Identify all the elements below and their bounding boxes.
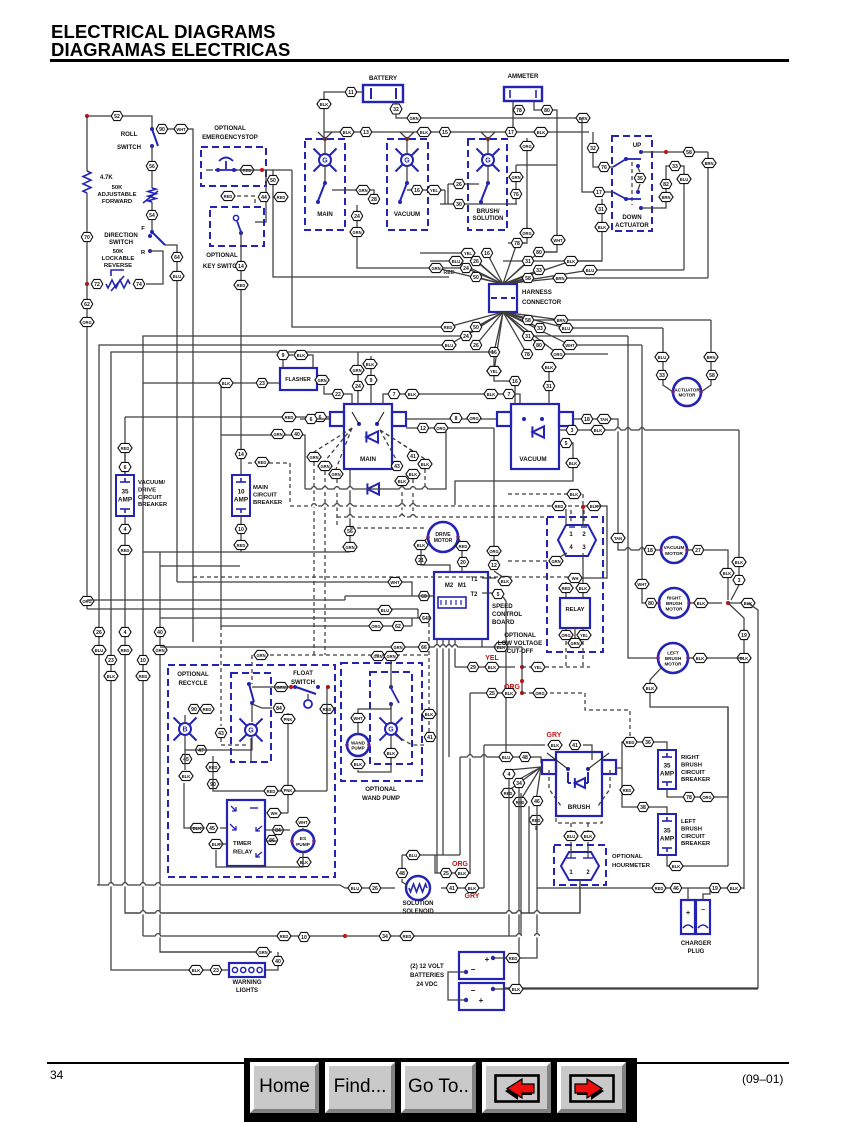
svg-text:GRN: GRN [352,368,361,373]
board bottom wires [436,639,438,873]
svg-text:BLK: BLK [408,392,416,397]
wire tag BLU [406,850,420,859]
bus y936 [143,793,521,936]
Home button [250,1062,319,1113]
wire tag BLU [92,645,106,654]
wire tag RED [255,457,269,466]
wire tag GRN [271,429,285,438]
wire 29 row [455,666,515,668]
wire tag BLU [170,271,184,280]
wire tag ORG [487,546,501,555]
wire [487,139,489,153]
wire tag WH [267,808,281,817]
wire tag BLK [484,389,498,398]
wire tag BLK [485,662,499,671]
svg-text:BRN: BRN [556,276,565,281]
wire tag 40 [291,429,303,438]
svg-text:5: 5 [565,441,568,447]
dashed relay drops [565,641,567,667]
svg-text:OPTIONAL: OPTIONAL [206,252,238,259]
wire 25 row solenoid [435,855,470,873]
wire tag BLK [737,653,751,662]
wire tag RED [234,280,248,289]
wire brush tab down [622,768,667,814]
svg-text:G: G [404,158,410,165]
wire battery right [396,102,582,118]
wire tag BLK [190,823,204,832]
charger plug [681,900,695,934]
board pin stubs [421,553,450,572]
svg-text:BLK: BLK [551,743,559,748]
wire tag 80 [541,105,553,114]
svg-text:GRN: GRN [570,641,579,646]
wire tag 23 [256,378,268,387]
switch MAIN [318,183,325,201]
svg-text:3: 3 [582,545,586,551]
node junction [85,282,89,286]
wire tag BLU [348,883,362,892]
svg-text:BLK: BLK [488,665,496,670]
svg-text:RED: RED [459,544,468,549]
wire float right down [326,687,328,791]
meter G VACUUM [396,149,419,172]
wire tag 29 [467,662,479,671]
bus y383 flasher [143,382,280,384]
wire tag BLU [655,352,669,361]
svg-text:BLK: BLK [598,225,606,230]
wire tag BLU [442,340,456,349]
wire tag BLK [567,489,581,498]
node junction [664,150,668,154]
svg-text:9: 9 [370,378,373,384]
wire tag BLU [583,265,597,274]
up-down actuator box [612,136,652,231]
wire ammeter left [512,101,514,132]
key switch [237,221,241,232]
svg-text:35: 35 [637,176,643,182]
wire harness fan low [503,312,566,328]
wire tag GRN [256,947,270,956]
wire tag 62 [392,621,404,630]
svg-text:BLU: BLU [452,259,460,264]
svg-text:58: 58 [686,150,692,156]
pin4 lead [560,553,567,557]
wire tag 16 [411,185,423,194]
svg-text:PNK: PNK [284,788,293,793]
svg-text:VACUUM: VACUUM [664,545,685,551]
svg-text:CIRCUIT: CIRCUIT [681,834,705,840]
wire tag 33 [533,265,545,274]
svg-text:RED: RED [444,270,455,276]
wire tag 56 [344,526,356,535]
svg-text:24 VDC: 24 VDC [416,981,438,988]
svg-text:BLK: BLK [297,353,305,358]
wire harness fan low [503,312,539,345]
contactor BRUSH [556,752,602,816]
wire row y430 [559,429,739,431]
page number [50,1068,63,1082]
svg-text:50K: 50K [112,185,124,191]
motor wand pump [347,734,369,756]
wire tag 24 [460,331,472,340]
relay pins [231,806,236,811]
svg-text:RED: RED [237,543,246,548]
wire tag 16 [481,248,493,257]
svg-text:BLK: BLK [672,864,680,869]
svg-text:MAIN: MAIN [317,211,333,218]
svg-text:50: 50 [473,325,479,331]
svg-text:4: 4 [124,630,127,636]
svg-text:4: 4 [508,772,511,778]
dashed 43 below [221,738,246,745]
wires wand [358,705,391,713]
wire tag 3 [733,575,745,584]
wires fan verticals [508,779,510,936]
brush left tab fan [509,767,541,770]
svg-text:RED: RED [516,800,525,805]
wire to bottom right rail [504,603,758,988]
svg-text:56: 56 [149,164,155,170]
wire ORG rail [508,138,527,243]
wire tag 26 [470,340,482,349]
wire tag 6 [314,412,327,421]
svg-text:−: − [471,965,476,974]
svg-text:ORG: ORG [522,144,531,149]
wire tag 4 [119,627,131,636]
wires cluster [345,595,435,597]
wire tag 47 [195,745,207,754]
Find button [325,1062,395,1113]
svg-text:LOCKABLE: LOCKABLE [102,256,135,262]
svg-text:WARNING: WARNING [233,980,262,986]
circuit breaker CB1 35A [116,475,134,516]
dashed bus y528 [350,527,424,529]
wire tag 25 [440,868,452,877]
wire tag 10 [137,655,149,664]
svg-text:MOTOR: MOTOR [665,551,683,557]
svg-text:72: 72 [94,282,100,288]
dashed ORG right [522,692,585,694]
wire tag ORG [434,423,448,432]
svg-text:BLK: BLK [487,392,495,397]
svg-text:SPEED: SPEED [492,603,513,610]
svg-text:26: 26 [96,630,102,636]
wire battery series link [448,972,466,1000]
wire tag 58 [706,370,718,379]
optional recycle box [168,665,335,877]
svg-text:GRN: GRN [273,432,282,437]
motor right brush [659,588,689,618]
svg-text:BLK: BLK [366,362,374,367]
svg-text:BLK: BLK [570,492,578,497]
svg-text:BLK: BLK [584,834,592,839]
svg-text:34: 34 [382,934,388,940]
wire tag 70 [81,232,93,241]
svg-text:38: 38 [640,805,646,811]
wire tag BLK [465,883,479,892]
wire tag BLK [581,831,595,840]
bus y566 [160,565,240,567]
wire tag BLU [564,831,578,840]
wire tag 24 [352,381,364,390]
wire wand GRN drop [390,661,392,687]
wire relay bottom [565,628,567,634]
wire harness fan low [503,312,558,354]
svg-text:19: 19 [712,886,718,892]
svg-text:33: 33 [672,164,678,170]
wire harness fan [487,253,503,284]
wire tag YEL [577,630,591,639]
wire tag ORG [559,630,573,639]
wire tag RED [552,501,566,510]
wire tag 3 [566,425,578,434]
svg-text:OPTIONAL: OPTIONAL [177,671,209,678]
svg-text:48: 48 [522,755,528,761]
previous page button [482,1062,551,1113]
wire tag BLK [566,458,580,467]
svg-text:RELAY: RELAY [233,850,252,856]
wire V to top row [481,132,495,139]
dashed brush skirt [549,770,561,806]
wire tag 31 [595,204,607,213]
wire tag 9 [365,375,377,384]
wire harness fan low [503,312,528,320]
wire tag BLK [395,476,409,485]
bus y430 right end down [731,430,739,600]
wire tag RED [441,322,455,331]
svg-text:BLK: BLK [646,686,654,691]
flasher [280,368,317,390]
wire tag BLK [576,583,590,592]
wire harness fan [503,278,560,284]
wire tag 4 [503,769,515,778]
rail x642 WHT to right brush motor [642,345,659,603]
svg-text:46: 46 [534,799,540,805]
svg-text:CONTROL: CONTROL [492,611,522,618]
svg-text:BRN: BRN [707,355,716,360]
svg-text:VACUUM: VACUUM [519,456,546,463]
wire RED branch [292,170,448,327]
wire tag RED [264,786,278,795]
svg-text:66: 66 [421,645,427,651]
bus y552 [143,551,350,553]
svg-text:80: 80 [536,250,542,256]
wire [421,537,428,553]
svg-text:BLU: BLU [409,853,417,858]
svg-text:23: 23 [259,381,265,387]
svg-text:EMERGENCYSTOP: EMERGENCYSTOP [202,134,258,141]
wire tag 46 [531,796,543,805]
wire tag ORG [520,228,534,237]
recycle inner box [231,673,271,762]
wire tag RED [277,931,291,940]
svg-text:ACTUATOR: ACTUATOR [674,387,700,392]
meter G BRUSH [477,149,500,172]
wire 76 to switch [593,132,613,167]
svg-text:78: 78 [524,352,530,358]
wire 84 link [252,704,272,708]
svg-text:RED: RED [280,934,289,939]
wire harness fan low [476,312,503,345]
wire charger leads [687,888,689,900]
wire tag 7 [503,389,515,398]
svg-text:50K: 50K [113,249,125,255]
svg-text:AMP: AMP [660,771,675,778]
wire tag 40 [272,956,284,965]
svg-text:BLU: BLU [562,326,570,331]
svg-text:RED: RED [121,648,130,653]
svg-text:26: 26 [372,886,378,892]
wire [240,233,242,475]
svg-text:RED: RED [277,195,286,200]
wire tag GRN [568,638,582,647]
svg-text:GRY: GRY [547,732,562,739]
wire roll switch to WHT rail [158,129,193,642]
svg-text:TAN: TAN [600,417,608,422]
svg-text:BLK: BLK [501,579,509,584]
svg-text:SOLUTION: SOLUTION [473,216,504,222]
wire BRN rail to actuator motor [701,320,711,392]
wire [240,516,242,552]
svg-text:AMP: AMP [118,497,133,504]
svg-text:41: 41 [427,735,433,741]
wire rails x350 [349,470,351,552]
svg-text:RED: RED [139,674,148,679]
wire BLK-9 column [370,356,372,404]
node junction [85,114,89,118]
svg-text:BATTERIES: BATTERIES [410,972,444,979]
bus y417 [125,416,330,418]
wire tag BLK [351,759,365,768]
wire brush coil vertical [483,745,485,888]
wire tag BLK [727,883,741,892]
wire GRN-24 column [357,352,359,404]
page title line 1 [51,21,276,43]
wires wand pump motor [357,723,359,734]
svg-text:6: 6 [319,415,322,421]
contactor VACUUM [511,404,559,469]
wire harness fan [503,243,517,284]
svg-text:B: B [182,727,187,734]
svg-text:40: 40 [294,432,300,438]
svg-text:7: 7 [508,392,511,398]
wire tag 21 [415,555,427,564]
wire [406,139,408,153]
wire 25 row [470,692,515,694]
svg-text:29: 29 [470,665,476,671]
svg-text:22: 22 [335,392,341,398]
wire main switch GRN 28 [332,190,374,205]
svg-text:16: 16 [484,251,490,257]
wire tag 56 [146,161,158,170]
svg-text:BATTERY: BATTERY [369,75,397,82]
wire brush coil top [484,744,545,746]
svg-text:YEL: YEL [580,633,588,638]
svg-text:24: 24 [463,266,469,272]
wire tag 45 [180,754,192,763]
wire [689,602,722,604]
wire tag BLU [559,323,573,332]
svg-text:GRN: GRN [511,175,520,180]
roll switch [152,129,158,146]
svg-text:MOTOR: MOTOR [664,661,682,666]
svg-text:DRIVE: DRIVE [138,487,156,493]
wire tag BLK [455,868,469,877]
svg-text:25: 25 [489,691,495,697]
wire vacuum top [485,394,520,404]
wire warning lights right [265,952,278,970]
wire tag RED [240,165,254,174]
wire tag BLK [548,740,562,749]
circuit breaker CB2 10A [232,475,250,516]
svg-text:OPTIONAL: OPTIONAL [504,632,536,639]
svg-text:GRN: GRN [352,230,361,235]
svg-text:SOLUTION: SOLUTION [403,901,434,907]
wire main top hexes [383,394,485,404]
svg-text:14: 14 [238,452,244,458]
svg-text:33: 33 [537,326,543,332]
wire tag GRN [350,227,364,236]
wire vacuum top right [548,362,550,404]
wire tag BLK [509,984,523,993]
solid bus y489 [305,430,446,489]
wire tag PNK [281,785,295,794]
wire harness fan [468,253,503,284]
svg-text:58: 58 [525,318,531,324]
wire tag WHT [568,573,582,582]
wire tag BLK [587,501,601,510]
wire tag BLK [418,459,432,468]
bus y600 [87,599,345,601]
wire tag 41 [446,883,458,892]
svg-text:ORG: ORG [469,416,478,421]
wire tag 31 [543,381,555,390]
wire tag 80 [533,247,545,256]
wire tag BLK [414,540,428,549]
dashed bus y506 [290,505,540,507]
wire tag WHT [551,235,565,244]
svg-text:BREAKER: BREAKER [681,841,711,847]
wire [86,116,88,171]
svg-text:43: 43 [394,464,400,470]
optional hourmeter box [554,845,606,885]
svg-text:41: 41 [449,886,455,892]
wire tag 36 [642,737,654,746]
wire row y428 [406,427,494,429]
wire harness fan [456,261,503,284]
bus y609 [87,608,418,610]
wire harness fan [503,270,539,284]
wire GRN 76 rail [515,165,517,204]
svg-text:SWITCH: SWITCH [117,144,141,151]
wire right rail down [707,152,709,278]
wire tag 23 [105,655,117,664]
wire 16-YEL chain [493,357,495,366]
svg-text:31: 31 [525,259,531,265]
svg-text:GRN: GRN [393,645,402,650]
wire 31 rail [503,199,602,261]
svg-text:BLU: BLU [351,886,359,891]
svg-text:+: + [686,910,690,917]
svg-text:ORG: ORG [436,426,445,431]
wire tag RED [506,953,520,962]
wire tag ORG [467,413,481,422]
wire tag 9 [277,350,289,359]
wire tag 48 [396,868,408,877]
svg-text:BRN: BRN [705,161,714,166]
motor G wand [380,718,403,741]
svg-text:7: 7 [393,392,396,398]
